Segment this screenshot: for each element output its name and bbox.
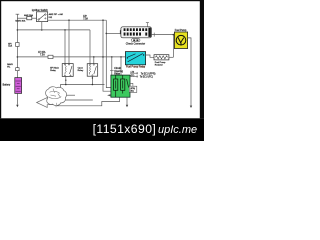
node junction A v4	[68, 19, 70, 21]
frame right border	[200, 0, 204, 118]
wire pump to ground	[187, 38, 191, 106]
resistor R1 fuel pump resistor	[154, 55, 169, 60]
node junction rail relay2	[92, 84, 94, 86]
wire v6 to relay2	[93, 57, 95, 64]
wire v8 to green relay top	[111, 57, 113, 75]
frame top border	[0, 0, 204, 1]
ground location sketch	[37, 98, 57, 108]
node relay2 ground dot	[92, 77, 93, 78]
node junction B v3	[64, 29, 66, 31]
node junction C v6	[93, 56, 95, 58]
svg-text:(FC): (FC)	[131, 75, 135, 77]
watermark bar	[0, 118, 204, 141]
node junction SW bottom	[41, 29, 43, 31]
wire relay1 ground	[65, 76, 67, 84]
wire branch C horizontal	[17, 56, 125, 58]
wire green relay FC pin	[130, 75, 138, 77]
wire resistor to pump branch	[169, 56, 174, 58]
svg-text:[1151x690]: [1151x690]	[93, 122, 157, 136]
relay K1 EFI main relay	[62, 64, 73, 77]
node junction bus C	[17, 56, 19, 58]
wire ground rail	[60, 84, 104, 86]
svg-text:Relay: Relay	[50, 70, 56, 72]
wire battery to ground	[16, 93, 18, 104]
svg-text:7.5A: 7.5A	[40, 54, 45, 57]
wire cyan to resistor	[146, 55, 154, 57]
wire v7 to green relay top	[120, 57, 122, 75]
wire fuse to ignition switch	[32, 17, 37, 19]
wire sketch to green bottom	[57, 97, 120, 106]
circuit opening relay K4	[111, 75, 130, 97]
wire v2 from A end to green relay	[106, 20, 111, 87]
svg-text:MAIN 30A: MAIN 30A	[15, 19, 26, 22]
connector STA box	[130, 83, 133, 86]
wire branch B horizontal	[17, 29, 90, 31]
wire relay2 ground	[91, 76, 93, 84]
svg-text:To ECU (FPR): To ECU (FPR)	[141, 74, 156, 76]
wire ignition switch output A	[48, 19, 107, 21]
fuel pump relay K3	[125, 52, 145, 65]
wire v5 to relay2	[89, 30, 91, 64]
wire v1 from A to green relay	[103, 20, 111, 91]
svg-text:(E1): (E1)	[130, 91, 134, 93]
svg-text:Fuel Pump: Fuel Pump	[175, 29, 187, 32]
ground battery	[16, 105, 18, 107]
node junction v1 branch C	[102, 56, 104, 58]
ground fuel pump	[190, 106, 192, 108]
svg-text:Circuit: Circuit	[114, 67, 121, 70]
wire battery bus vertical	[16, 14, 18, 77]
svg-text:upIc.me: upIc.me	[158, 124, 197, 136]
battery BAT	[15, 78, 22, 94]
wire green relay ground	[126, 97, 128, 105]
node relay1 ground dot	[65, 80, 66, 81]
wire ignition switch bottom stub	[41, 22, 43, 30]
svg-text:(STA): (STA)	[130, 87, 135, 90]
wire bus top cap	[16, 13, 20, 15]
sketch tail	[56, 103, 57, 107]
node junction rail relay1	[65, 84, 67, 86]
svg-text:7.5A: 7.5A	[83, 17, 88, 20]
wire AM2 feed horizontal	[17, 17, 26, 19]
svg-text:Fuel Pump Relay: Fuel Pump Relay	[126, 66, 146, 69]
fuse EFI on bus	[16, 43, 19, 47]
relay K2 circuit opening relay feed	[87, 64, 98, 76]
node junction A v1	[102, 19, 104, 21]
svg-text:AM2 30A: AM2 30A	[24, 14, 34, 17]
node junction bus B	[17, 29, 19, 31]
node junction pump branch	[173, 34, 175, 36]
frame left border	[0, 0, 1, 118]
check connector CN1	[121, 27, 151, 38]
svg-text:Battery: Battery	[3, 84, 11, 87]
fusible link MAIN F/L	[16, 68, 19, 71]
svg-text:Relay: Relay	[78, 70, 84, 72]
svg-text:15A: 15A	[8, 45, 12, 48]
wire v3 to relay1	[64, 30, 66, 64]
wire check connector top stub	[146, 23, 149, 27]
connector DLC small	[131, 39, 140, 42]
wire v4 to relay1	[68, 20, 70, 63]
svg-text:Opening: Opening	[114, 71, 123, 73]
wire green relay FPR pin	[130, 72, 138, 74]
fuse AM2	[27, 16, 32, 19]
node junction C green top 2	[111, 56, 113, 58]
svg-text:AM2 F/P + AM: AM2 F/P + AM	[49, 13, 63, 16]
svg-text:To ECU (FC): To ECU (FC)	[140, 77, 153, 79]
arrow pointer green left	[107, 94, 110, 96]
svg-text:(+B): (+B)	[131, 72, 135, 74]
node junction v2 check wire	[106, 33, 108, 35]
wire rail left down	[59, 85, 61, 101]
tick connector mark v8	[110, 70, 114, 72]
node junction C green top	[120, 56, 122, 58]
wire pump branch down to resistor	[172, 35, 174, 58]
wire check connector to fuel pump	[151, 34, 174, 36]
ignition switch SW1	[37, 12, 48, 22]
svg-text:Resistor: Resistor	[155, 64, 163, 67]
wire rail bottom 2	[60, 99, 92, 101]
ground green relay	[126, 105, 128, 107]
fuse on branch C	[48, 55, 53, 58]
wire rail bottom	[60, 94, 75, 96]
svg-text:Relay: Relay	[114, 74, 121, 76]
fuel pump M1	[174, 32, 187, 49]
svg-text:Check Connector: Check Connector	[126, 43, 145, 46]
wire to check connector	[106, 32, 121, 34]
